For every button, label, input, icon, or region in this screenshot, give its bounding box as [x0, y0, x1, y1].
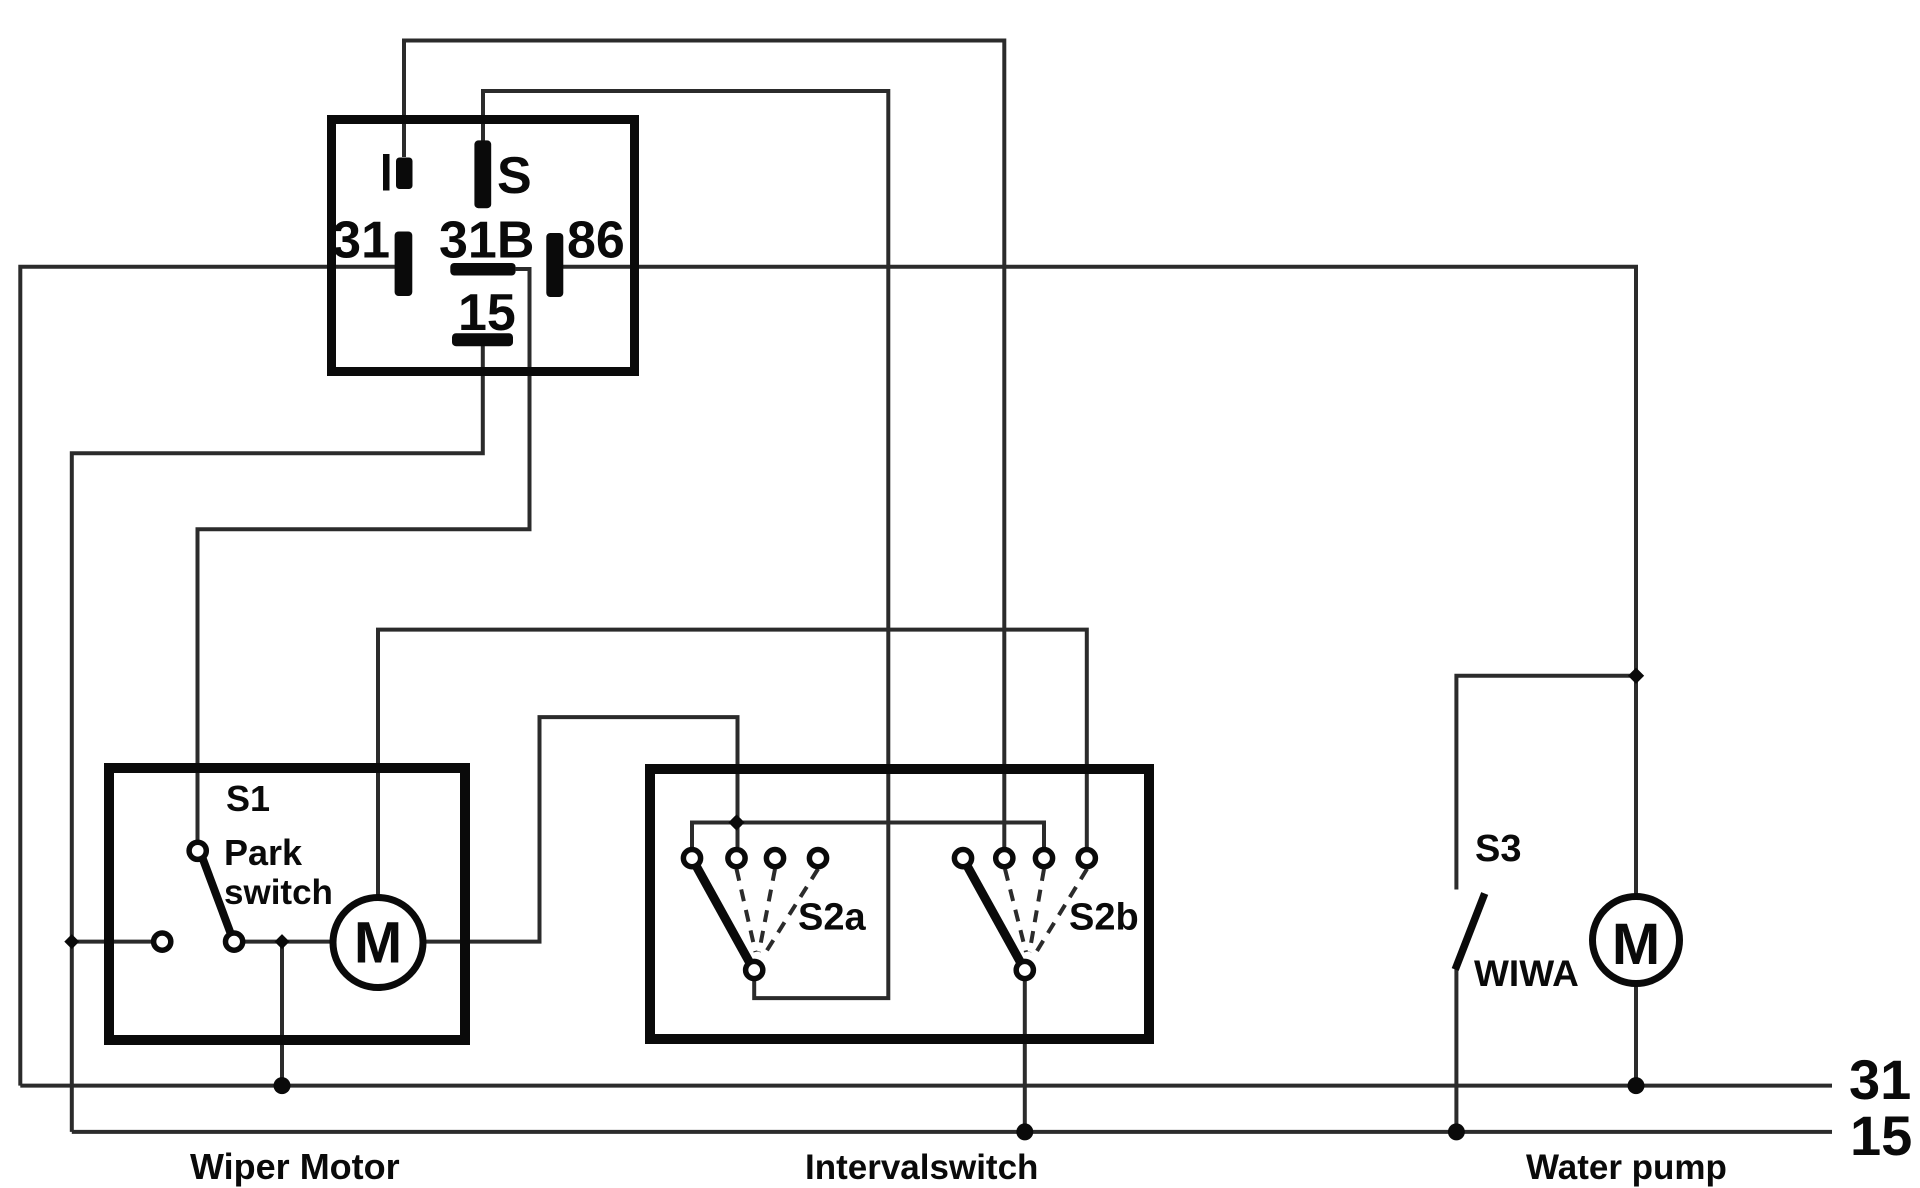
bus 31 [20, 1084, 1832, 1088]
wire relay 86 pin to water pump [563, 267, 1636, 895]
junction S3 branch [1628, 668, 1644, 684]
svg-text:M: M [354, 911, 402, 976]
junction motor line [275, 934, 290, 949]
svg-text:Wiper Motor: Wiper Motor [190, 1146, 400, 1187]
svg-text:15: 15 [1850, 1104, 1912, 1167]
relay pin 31B bar [450, 263, 515, 276]
S2a dashed contacts [737, 869, 756, 952]
relay pin I glyph [383, 154, 390, 191]
junction 15 bus S3 [1448, 1123, 1465, 1140]
svg-text:S1: S1 [226, 778, 270, 819]
svg-text:86: 86 [567, 212, 625, 270]
wire branch to S3 [1456, 676, 1636, 890]
wire water pump to 31 bus [1634, 985, 1638, 1086]
wire bridge S2a t1 to S2b t3 [692, 823, 1044, 848]
wire relay 31 pin to 31 bus [20, 267, 395, 1086]
S1 moving terminal [226, 933, 243, 950]
svg-text:switch: switch [224, 873, 333, 912]
S2a lever [694, 862, 751, 965]
S2b dashed contacts [1005, 869, 1026, 952]
S2a moving contact [746, 961, 763, 978]
S1 upper terminal [189, 842, 206, 859]
svg-text:31: 31 [1849, 1048, 1911, 1111]
S2a terminal 3 [766, 850, 783, 867]
S2b moving contact [1016, 961, 1033, 978]
intervalswitch box [650, 769, 1149, 1039]
S2b terminal 2 [996, 850, 1013, 867]
svg-text:Park: Park [224, 832, 303, 873]
bus 15 [72, 1130, 1832, 1134]
relay box K1 [332, 120, 635, 372]
relay pin 31 bar [395, 232, 413, 297]
junction 31 bus pump [1628, 1077, 1645, 1094]
S2a terminal 4 [809, 850, 826, 867]
svg-text:WIWA: WIWA [1474, 953, 1579, 994]
wire motor junction to 31 bus [280, 942, 284, 1086]
S2a terminal 2 [728, 850, 745, 867]
S2b terminal 1 [954, 850, 971, 867]
junction 15 feed [64, 934, 79, 949]
junction 31 bus left [274, 1077, 291, 1094]
wiper motor box [109, 768, 465, 1040]
water pump motor M2 circle [1593, 897, 1680, 984]
switch S1 lever [201, 854, 232, 937]
switch S3 lever [1455, 894, 1485, 970]
svg-text:S2a: S2a [798, 897, 866, 939]
wire motor M1 right to S2a terminal 2 [424, 717, 738, 942]
relay pin S bar [474, 140, 491, 208]
wire relay 31B pin to park switch [198, 269, 530, 841]
S2b terminal 3 [1035, 850, 1052, 867]
relay pin I bar [396, 158, 413, 190]
relay pin 15 bar [452, 333, 513, 346]
svg-text:S: S [497, 147, 532, 205]
relay pin 86 bar [546, 233, 563, 297]
wire 15 feed to S1 left terminal [72, 940, 152, 944]
svg-text:31B: 31B [439, 212, 534, 270]
junction 15 bus S2b [1016, 1123, 1033, 1140]
wire S1 common to motor M1 [244, 940, 332, 944]
S2b terminal 4 [1078, 850, 1095, 867]
wire I-pin to S2b terminal 2 [404, 41, 1004, 848]
wire S-pin to S2a common [483, 91, 888, 998]
svg-text:M: M [1612, 912, 1660, 977]
svg-text:S2b: S2b [1069, 897, 1139, 939]
S1 left terminal [154, 933, 171, 950]
motor M1 circle [333, 898, 423, 988]
svg-text:Intervalswitch: Intervalswitch [805, 1148, 1038, 1187]
S2b lever [965, 862, 1022, 965]
junction interval box [728, 814, 744, 830]
svg-text:S3: S3 [1475, 828, 1521, 870]
wire S3 to 15 bus [1454, 968, 1458, 1132]
svg-text:15: 15 [458, 284, 516, 342]
wire motor M1 top to S2b terminal 4 [378, 630, 1087, 896]
svg-text:31: 31 [332, 212, 390, 270]
svg-text:Water pump: Water pump [1526, 1148, 1727, 1187]
S2a terminal 1 [683, 850, 700, 867]
wire relay 15 pin to 15 bus [72, 345, 483, 1132]
wire S2b common to 15 bus [1023, 980, 1027, 1132]
